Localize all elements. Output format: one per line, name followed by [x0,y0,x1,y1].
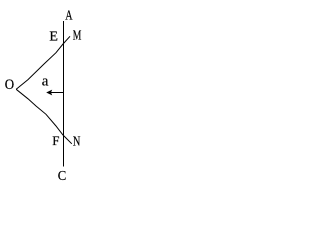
upper string O-E-M [16,36,70,89]
acceleration arrow head [46,90,52,96]
acceleration arrow shaft [50,92,64,94]
svg-text:E: E [49,30,58,45]
svg-text:M: M [73,29,82,44]
svg-text:C: C [58,169,66,184]
svg-text:O: O [5,77,14,93]
svg-text:A: A [65,8,72,23]
svg-text:a: a [42,73,49,89]
vertical rod A-C [63,21,65,167]
physics diagram: rod AC with strings from pivot O, acceleration arrow a [0,0,91,185]
svg-text:F: F [52,133,59,148]
svg-text:N: N [73,134,81,149]
lower string O-F-N [16,89,72,144]
